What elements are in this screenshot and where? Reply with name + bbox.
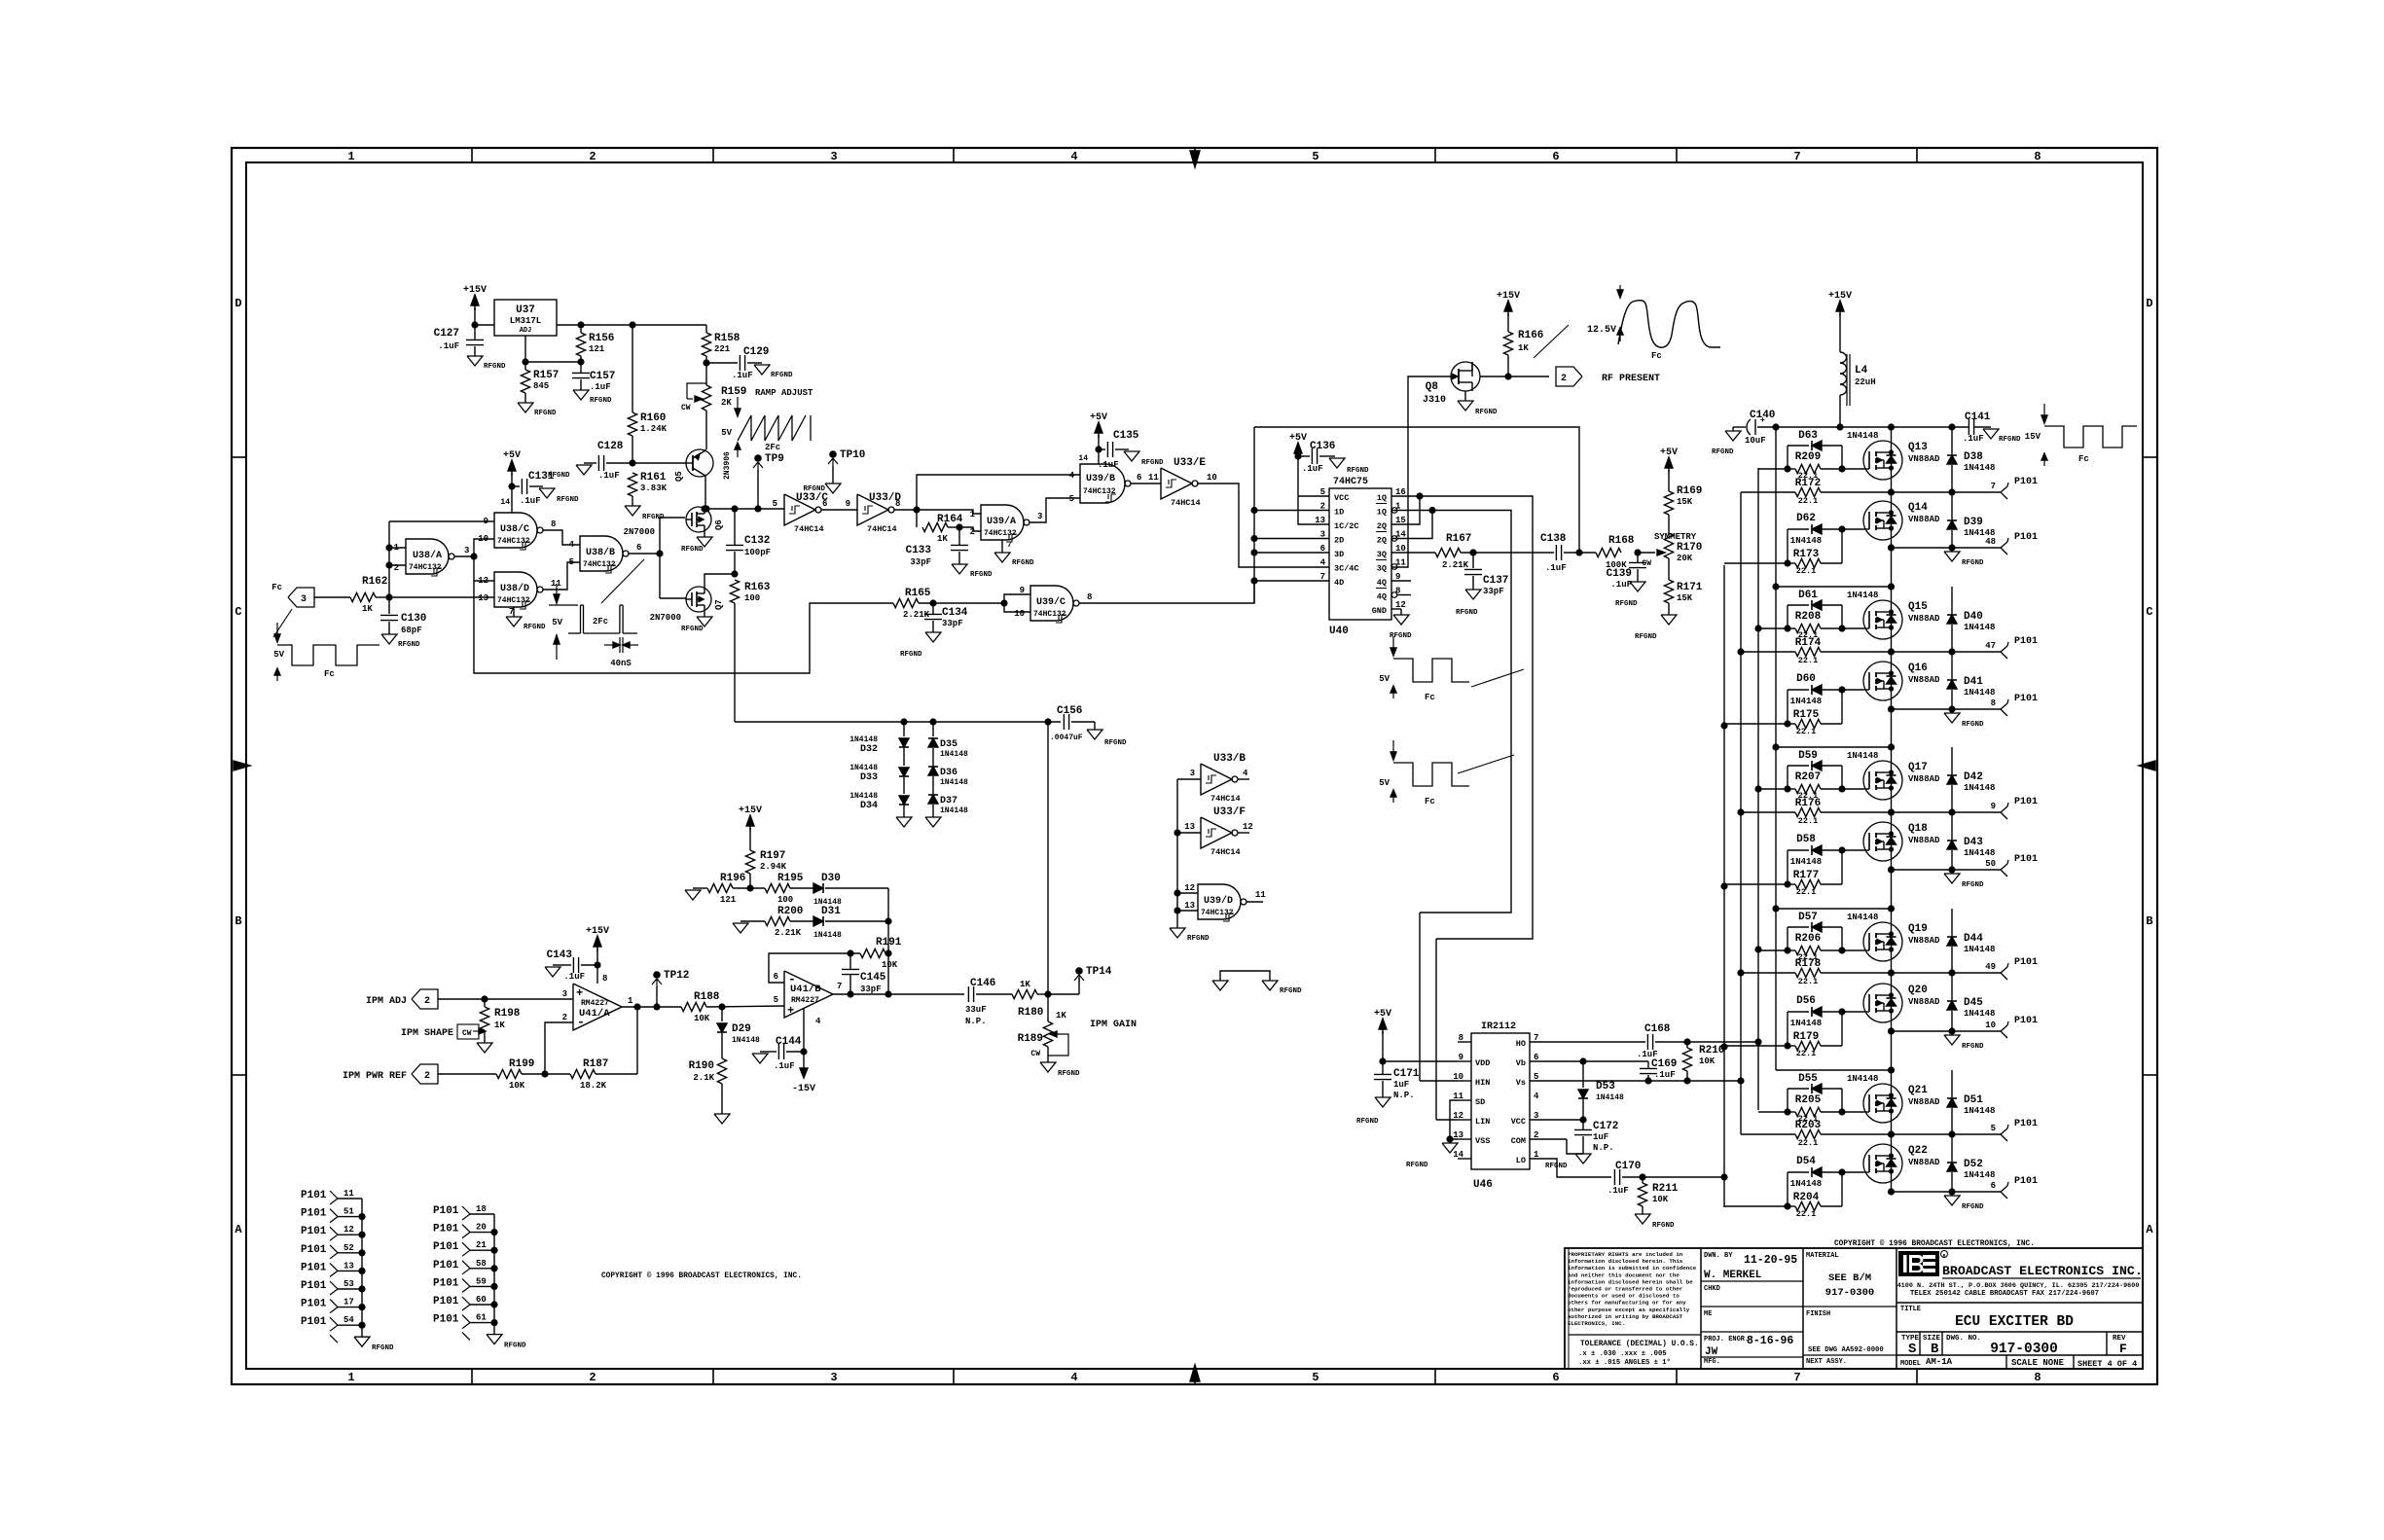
svg-text:12: 12 [1243,822,1253,832]
svg-text:3: 3 [464,546,469,555]
node after U33D [913,506,920,513]
svg-text:1N4148: 1N4148 [1964,783,1995,793]
svg-text:Q13: Q13 [1908,442,1928,453]
svg-text:.1uF: .1uF [438,341,459,351]
wire U33D out to node [894,509,917,511]
svg-text:DWN. BY: DWN. BY [1704,1252,1733,1260]
svg-text:3: 3 [830,1371,837,1384]
svg-text:3C/4C: 3C/4C [1334,564,1359,574]
node R156 top [577,321,584,328]
svg-text:COPYRIGHT © 1996 BROADCAST ELE: COPYRIGHT © 1996 BROADCAST ELECTRONICS, … [1834,1239,2035,1248]
border column ticks [471,148,473,162]
svg-text:VN88AD: VN88AD [1908,997,1940,1007]
svg-text:TOLERANCE (DECIMAL) U.O.S.: TOLERANCE (DECIMAL) U.O.S. [1580,1341,1699,1348]
svg-text:10: 10 [1207,473,1217,483]
ground U39D bus [1170,928,1185,938]
ground C143 [545,967,560,977]
svg-text:Fc: Fc [324,669,335,679]
svg-text:L4: L4 [1855,365,1868,376]
svg-text:33pF: 33pF [942,619,963,628]
test point TP9 [754,454,762,462]
transistor Q7 2N7000 [686,587,711,612]
svg-text:VN88AD: VN88AD [1908,454,1940,464]
svg-text:2Fc: 2Fc [593,617,608,627]
svg-text:SEE B/M: SEE B/M [1828,1272,1871,1284]
svg-text:5V: 5V [1379,674,1390,684]
svg-text:1N4148: 1N4148 [813,931,842,940]
ground R190 [714,1114,730,1124]
svg-text:+: + [787,1004,794,1018]
svg-text:A: A [235,1223,242,1236]
inverter U33/E 74HC14 [1161,468,1192,499]
svg-text:BROADCAST ELECTRONICS INC.: BROADCAST ELECTRONICS INC. [1942,1264,2143,1278]
svg-text:ECU EXCITER BD: ECU EXCITER BD [1955,1314,2074,1330]
svg-text:CHKD: CHKD [1704,1285,1720,1293]
svg-text:R191: R191 [876,937,902,949]
svg-text:R180: R180 [1018,1007,1043,1019]
node C133 [956,523,962,530]
svg-text:.0047uF: .0047uF [1050,734,1083,742]
svg-text:5: 5 [773,499,777,509]
test point TP14 [1075,967,1083,975]
svg-text:5: 5 [1991,1124,1996,1133]
svg-text:-15V: -15V [792,1084,815,1094]
svg-text:R189: R189 [1018,1033,1043,1045]
node C140 bus [1772,423,1779,430]
svg-text:R167: R167 [1446,533,1471,545]
svg-text:22.1: 22.1 [1798,816,1818,826]
svg-text:7: 7 [1793,150,1800,163]
svg-text:5V: 5V [1379,778,1390,788]
svg-text:22.1: 22.1 [1798,1138,1818,1148]
svg-text:F: F [2119,1342,2127,1356]
svg-text:3: 3 [1037,512,1042,521]
svg-text:3: 3 [301,594,307,605]
svg-text:P101: P101 [2014,1016,2038,1026]
svg-text:1K: 1K [494,1021,505,1030]
nand gate U38/D 74HC132 [494,572,537,607]
svg-text:CW: CW [462,1029,472,1038]
svg-text:1D: 1D [1334,508,1344,518]
node C156 [1044,718,1051,725]
svg-text:1N4148: 1N4148 [849,792,878,801]
svg-text:1N4148: 1N4148 [732,1036,760,1045]
svg-text:C135: C135 [1113,430,1139,442]
wire feedback U41B [769,953,860,983]
wire ADJ node [525,361,581,363]
svg-text:R198: R198 [494,1008,521,1020]
svg-text:1N4148: 1N4148 [1790,1019,1822,1028]
svg-text:1N4148: 1N4148 [1847,431,1878,441]
node TP14 R189 [1044,990,1051,997]
svg-text:4100 N. 24TH ST., P.O.BOX 3606: 4100 N. 24TH ST., P.O.BOX 3606 QUINCY, I… [1897,1282,2140,1290]
svg-text:Q5: Q5 [674,471,684,482]
node C131 [508,483,515,489]
svg-text:D43: D43 [1964,837,1983,848]
svg-text:Vb: Vb [1516,1058,1526,1068]
svg-text:VSS: VSS [1475,1136,1490,1146]
ground C131 [539,488,555,498]
svg-text:Vs: Vs [1516,1078,1526,1088]
wire U37 output rail [557,324,706,326]
svg-text:10K: 10K [1699,1057,1716,1066]
wire R164 to U39A pin2 [959,527,981,531]
ground C144 [752,1054,768,1063]
svg-text:R160: R160 [640,412,666,424]
node U37 input [471,321,478,328]
ground Q6 source [704,532,705,537]
wire out to C146 [888,993,964,995]
border mid arrow left [234,761,250,770]
svg-text:RFGND: RFGND [1652,1222,1675,1230]
svg-text:1K: 1K [1020,980,1030,989]
svg-text:48: 48 [1985,537,1996,547]
svg-text:2.21K: 2.21K [775,928,802,938]
svg-text:12: 12 [343,1225,354,1235]
svg-text:VDD: VDD [1475,1058,1490,1068]
svg-text:RF PRESENT: RF PRESENT [1602,374,1660,384]
svg-text:R190: R190 [689,1060,714,1072]
svg-text:4D: 4D [1334,578,1344,588]
node C141 [1948,423,1955,430]
svg-text:R177: R177 [1793,870,1819,881]
svg-text:R166: R166 [1518,330,1543,341]
svg-text:R161: R161 [640,472,667,483]
svg-text:100: 100 [744,593,760,603]
svg-text:D37: D37 [940,796,957,806]
wire gate bus HO [1757,468,1759,1110]
svg-text:D51: D51 [1964,1094,1983,1106]
svg-text:10K: 10K [882,960,898,970]
node C137 [1469,549,1476,555]
svg-text:D: D [235,297,241,310]
svg-text:TELEX 250142 CABLE BROADCAST: TELEX 250142 CABLE BROADCAST FAX 217/224… [1910,1290,2099,1298]
svg-text:C137: C137 [1483,575,1508,587]
wire pair rail Q21 [1776,1069,1892,1071]
svg-text:U38/B: U38/B [586,547,615,558]
wire 4Qbar stub [1397,594,1411,596]
ground R157 [518,403,533,412]
wire COM row [1530,1138,1567,1140]
svg-text:1N4148: 1N4148 [1847,1074,1878,1084]
wire FET gate bus [659,518,661,598]
svg-text:COPYRIGHT © 1996 BROADCAST ELE: COPYRIGHT © 1996 BROADCAST ELECTRONICS, … [601,1271,802,1280]
svg-text:D38: D38 [1964,451,1983,463]
svg-text:P101: P101 [2014,477,2038,487]
svg-text:.1uF: .1uF [1654,1070,1676,1080]
node C170 R211 [1639,1173,1645,1180]
svg-text:22.1: 22.1 [1798,656,1818,665]
svg-text:U41/B: U41/B [790,984,821,995]
svg-text:1uF: 1uF [1393,1080,1409,1090]
wire IPM ADJ to U41A pin3 [438,998,573,1000]
transistor Q5 2N3906 [686,449,713,477]
svg-text:C157: C157 [590,371,615,382]
-15V supply U41B [803,1052,805,1068]
svg-text:P101: P101 [301,1299,327,1310]
wire LIN feed [1435,939,1437,1120]
svg-text:74HC14: 74HC14 [1210,794,1241,804]
svg-text:Q17: Q17 [1908,762,1928,773]
svg-text:IPM ADJ: IPM ADJ [366,996,407,1007]
svg-text:R168: R168 [1608,535,1635,547]
svg-text:51: 51 [343,1207,354,1217]
svg-text:C171: C171 [1393,1068,1420,1080]
svg-text:RFGND: RFGND [1456,609,1478,617]
svg-text:10K: 10K [694,1014,710,1023]
callout diagonal upper waveform [1471,669,1524,687]
svg-text:RFGND: RFGND [534,410,557,417]
ground source rail Q14 [1951,548,1953,552]
svg-text:documents or used or disclosed: documents or used or disclosed to [1568,1293,1680,1300]
callout diagonal 12.5V [1534,325,1569,358]
svg-text:C127: C127 [434,328,459,340]
ground source rail Q18 [1951,870,1953,874]
wire 4Q stub [1391,580,1411,582]
svg-text:RFGND: RFGND [771,372,793,379]
svg-text:RFGND: RFGND [681,546,704,554]
svg-text:1N4148: 1N4148 [1964,463,1995,473]
svg-text:RFGND: RFGND [1635,633,1657,641]
wire Fc node vertical [388,521,390,597]
svg-text:18: 18 [476,1204,487,1214]
inverter U33/D 74HC14 [857,494,888,525]
svg-text:C139: C139 [1607,568,1632,580]
svg-text:4: 4 [1320,558,1326,568]
connector P101 pin 10 [2001,1025,2007,1031]
ground C157 [573,390,589,400]
svg-text:D39: D39 [1964,517,1983,528]
svg-text:1N4148: 1N4148 [1964,1170,1995,1180]
nand gate U39/C 74HC132 [1030,586,1073,621]
svg-text:SCALE NONE: SCALE NONE [2011,1358,2065,1368]
nand gate U38/C 74HC132 [494,513,537,548]
wire U33E out to U40 pin4 [1197,483,1329,567]
wire source bus [1740,492,1742,1134]
svg-text:.1uF: .1uF [1607,1186,1629,1196]
wire to U38C pin9 [389,520,494,522]
svg-text:68pF: 68pF [401,626,422,635]
svg-text:DWG. NO.: DWG. NO. [1946,1335,1981,1343]
svg-text:.1uF: .1uF [1302,464,1323,474]
wire SD VSS ground [1450,1100,1458,1139]
callout diagonal Fc waveform [273,609,292,637]
wire U41A pin2 down [545,1022,573,1074]
svg-text:6: 6 [774,972,778,982]
svg-text:R209: R209 [1795,451,1821,463]
svg-text:5: 5 [1312,150,1318,163]
svg-text:5: 5 [1069,494,1074,504]
wire 1Qbar 2Qbar net to HIN [1391,510,1432,512]
svg-text:VN88AD: VN88AD [1908,1097,1940,1107]
ground C130 [381,634,397,644]
svg-text:1N4148: 1N4148 [1847,913,1878,922]
wire 2Fc feedback long [474,581,893,673]
wire U39C out to U40 pin7 [1079,581,1254,603]
svg-text:21: 21 [476,1240,487,1250]
svg-text:P101: P101 [433,1260,459,1271]
wire 4D U40 [1254,580,1329,582]
svg-text:C138: C138 [1540,533,1567,545]
connector P101 pin 9 [2001,806,2007,812]
svg-text:.1uF: .1uF [1098,460,1119,470]
svg-text:1N4148: 1N4148 [1847,751,1878,761]
svg-text:HIN: HIN [1475,1078,1490,1088]
border mid arrow right [2139,761,2155,770]
svg-text:D52: D52 [1964,1159,1983,1170]
svg-text:P101: P101 [2014,636,2038,647]
svg-text:R172: R172 [1795,478,1821,489]
svg-text:10: 10 [1985,1021,1996,1030]
svg-text:P101: P101 [2014,854,2038,865]
svg-text:Q21: Q21 [1908,1085,1928,1096]
svg-text:11: 11 [1148,473,1159,483]
svg-text:1N4148: 1N4148 [849,764,878,772]
ground R198 [477,1043,492,1053]
output flag RF PRESENT [1556,367,1582,386]
title block model scale sheet row [2005,1355,2007,1369]
ground D37 [925,817,941,827]
svg-text:7: 7 [837,982,842,991]
svg-text:R163: R163 [744,582,771,593]
svg-text:R179: R179 [1793,1031,1819,1043]
svg-text:60: 60 [476,1295,487,1305]
svg-text:Q20: Q20 [1908,985,1928,996]
svg-text:RFGND: RFGND [1962,721,1984,729]
svg-text:IR2112: IR2112 [1481,1021,1516,1032]
ground C134 [925,632,941,642]
svg-text:TP10: TP10 [840,449,865,461]
svg-text:P101: P101 [301,1190,327,1201]
svg-text:P101: P101 [301,1262,327,1273]
wire IPM PWR REF to R199 [438,1073,496,1075]
svg-text:R178: R178 [1795,958,1822,970]
svg-text:4: 4 [1243,769,1248,778]
border mid arrow bottom [1190,1365,1200,1381]
svg-text:8: 8 [602,974,607,984]
svg-text:C172: C172 [1593,1121,1618,1132]
svg-text:3: 3 [830,150,837,163]
svg-text:20K: 20K [1677,554,1693,563]
wire gate Q6 [660,517,685,519]
ground C128 [584,462,592,464]
node C143 [594,961,600,968]
wire U39A out to U39B pin5 [1029,498,1080,522]
svg-text:RFGND: RFGND [1058,1070,1080,1078]
wire VCC row [1530,1119,1583,1121]
svg-text:MODEL: MODEL [1900,1360,1921,1368]
wire node to U39A pin1 [917,510,981,514]
title block company logo and address [1898,1251,1939,1276]
transistor Q21 VN88AD [1863,1084,1902,1123]
svg-text:B: B [235,914,241,928]
svg-text:14: 14 [1078,454,1088,463]
svg-text:RFGND: RFGND [1141,459,1164,467]
svg-text:59: 59 [476,1276,487,1286]
svg-text:VN88AD: VN88AD [1908,675,1940,685]
svg-text:2.94K: 2.94K [760,862,787,872]
svg-text:B: B [2146,914,2152,928]
svg-text:1: 1 [347,1371,354,1384]
svg-text:8: 8 [1991,698,1996,708]
svg-text:2: 2 [970,527,975,537]
svg-text:1N4148: 1N4148 [849,735,878,744]
svg-text:5: 5 [1312,1371,1318,1384]
svg-text:D36: D36 [940,768,957,778]
svg-text:S: S [1908,1342,1916,1357]
svg-text:1N4148: 1N4148 [1964,688,1995,698]
wire pair rail Q19 [1776,908,1892,910]
svg-text:D54: D54 [1796,1156,1816,1167]
svg-text:1K: 1K [1518,343,1529,353]
wire Vs row [1530,1080,1741,1082]
svg-text:C: C [235,605,241,619]
svg-text:R196: R196 [720,873,745,884]
svg-text:MFG.: MFG. [1704,1358,1720,1366]
svg-text:C145: C145 [860,972,886,984]
svg-text:R197: R197 [760,850,785,862]
svg-text:R204: R204 [1793,1192,1820,1203]
svg-text:13: 13 [343,1261,354,1271]
wire HIN feed [1419,913,1421,1081]
inverter U33/F 74HC14 [1201,817,1232,848]
border mid arrow top [1190,151,1200,167]
svg-text:5: 5 [774,995,778,1005]
svg-text:2Fc: 2Fc [765,443,780,452]
svg-text:C128: C128 [597,441,624,452]
wire pair rail Q15 [1776,586,1892,588]
svg-text:1N4148: 1N4148 [1596,1093,1624,1102]
wire drain tie bus [1775,427,1777,1070]
svg-text:.1uF: .1uF [732,371,753,380]
svg-text:Fc: Fc [1425,797,1435,806]
svg-text:RFGND: RFGND [1347,467,1369,475]
wire pair rail Q17 [1776,746,1892,748]
transistor Q18 VN88AD [1863,822,1902,861]
node R166 RF PRESENT [1504,373,1511,379]
svg-text:LO: LO [1516,1156,1526,1165]
svg-text:RFGND: RFGND [504,1343,526,1350]
wire U38A out to U38C/U38D [454,555,474,557]
svg-text:Fc: Fc [1425,693,1435,702]
transistor Q20 VN88AD [1863,984,1902,1022]
svg-text:B: B [1931,1342,1939,1357]
svg-text:2Q: 2Q [1377,536,1387,546]
wire feedback up to U39B pin4 [917,475,1080,510]
svg-text:others for manufacturing or fo: others for manufacturing or for any [1568,1300,1686,1307]
svg-text:other purpose except as specif: other purpose except as specifically [1568,1307,1690,1313]
wire Q6 drain [704,507,705,509]
svg-text:R174: R174 [1795,637,1822,649]
svg-text:P101: P101 [2014,797,2038,807]
wire gate bus LO [1723,565,1725,1207]
driver U46 IR2112 [1471,1033,1530,1169]
callout diagonal lower waveform [1458,755,1514,773]
ground C133 [952,564,967,574]
svg-text:8: 8 [2034,150,2041,163]
svg-text:CW: CW [1030,1050,1040,1058]
svg-text:1.24K: 1.24K [640,424,668,434]
svg-text:PROJ. ENGR.: PROJ. ENGR. [1704,1336,1749,1343]
svg-text:50: 50 [1985,859,1996,869]
svg-text:C143: C143 [547,949,573,961]
nand gate U39/B 74HC132 [1080,464,1125,503]
svg-text:2Q: 2Q [1377,521,1387,531]
svg-text:R211: R211 [1652,1183,1679,1195]
svg-text:VCC: VCC [1511,1117,1526,1127]
wire VCC U40 [1298,495,1329,497]
ground TP10 [825,483,841,493]
